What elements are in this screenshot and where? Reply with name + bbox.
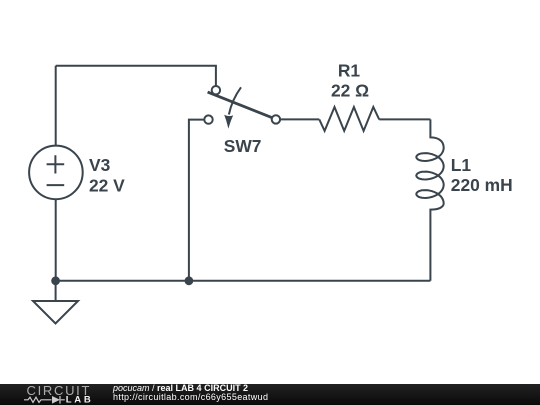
junction dot at ground node — [51, 276, 60, 285]
svg-text:22 Ω: 22 Ω — [331, 81, 369, 101]
inductor L1 coil — [416, 119, 443, 280]
switch SW7 right terminal — [272, 115, 280, 123]
junction dot at switch branch — [185, 276, 194, 285]
ground triangle — [33, 301, 78, 324]
svg-text:V3: V3 — [89, 155, 111, 175]
switch arrow — [224, 87, 241, 129]
wire bottom horizontal — [56, 280, 431, 282]
svg-text:R1: R1 — [338, 61, 361, 81]
resistor R1 — [319, 107, 379, 131]
svg-text:LAB: LAB — [66, 395, 94, 405]
svg-text:22 V: 22 V — [89, 175, 125, 195]
switch SW7 blade — [208, 92, 272, 117]
ground stem — [55, 281, 57, 301]
wire right terminal to resistor — [280, 118, 319, 120]
wire from left terminal down to bottom — [189, 120, 204, 281]
svg-text:220 mH: 220 mH — [451, 175, 513, 195]
footer bar — [0, 384, 540, 405]
svg-text:SW7: SW7 — [224, 136, 262, 156]
wire left rail upper — [55, 66, 57, 146]
switch SW7 top terminal — [212, 86, 220, 94]
svg-text:L1: L1 — [451, 155, 472, 175]
voltage source V3 — [29, 146, 83, 200]
switch SW7 left terminal — [204, 115, 212, 123]
V3 plus sign — [47, 155, 65, 173]
V3 minus sign — [47, 184, 65, 186]
wire left rail lower — [55, 199, 57, 281]
footer credit line — [113, 384, 268, 402]
CircuitLab logo — [0, 384, 110, 405]
wire top-left horizontal — [56, 66, 216, 86]
wire resistor to top-right corner — [379, 118, 430, 120]
